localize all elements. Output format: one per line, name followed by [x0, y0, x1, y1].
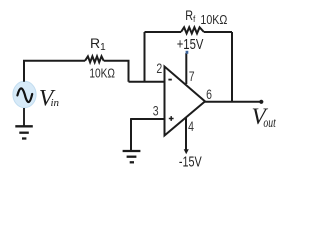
resistor R1 — [85, 56, 104, 62]
wire pin 2 input — [129, 81, 165, 83]
svg-text:6: 6 — [206, 86, 212, 102]
wire output — [205, 101, 262, 103]
output terminal dot — [259, 100, 263, 104]
wire feedback left vertical — [144, 32, 146, 82]
pin 4 supply line — [185, 117, 187, 152]
svg-text:10KΩ: 10KΩ — [89, 66, 115, 80]
svg-text:10KΩ: 10KΩ — [200, 12, 227, 27]
plus sign at non-inverting input — [169, 116, 174, 121]
wire input top from source to R1 — [24, 61, 85, 82]
wire feedback top left segment — [145, 31, 182, 33]
wire pin 3 input — [131, 118, 164, 120]
ground at pin 3 — [123, 151, 141, 162]
svg-text:-15V: -15V — [179, 153, 202, 170]
wire pin3 to ground vertical — [130, 118, 132, 150]
svg-text:out: out — [263, 115, 276, 130]
svg-text:R1: R1 — [90, 35, 106, 53]
svg-text:in: in — [51, 97, 60, 109]
svg-text:+15V: +15V — [177, 36, 204, 53]
wire from R1 to pin2 corner — [104, 61, 129, 82]
blue handle dot above pin 7 — [186, 51, 189, 54]
wire feedback top right segment — [204, 31, 232, 33]
wire feedback right vertical — [231, 32, 233, 102]
op-amp U1 — [165, 67, 206, 136]
svg-text:3: 3 — [153, 103, 159, 119]
minus sign at inverting input — [168, 79, 171, 81]
svg-text:7: 7 — [189, 68, 195, 84]
ground at source — [15, 108, 33, 139]
svg-text:2: 2 — [156, 60, 162, 76]
pin 7 supply line — [185, 53, 187, 84]
arrowhead on -15V line — [184, 149, 189, 154]
AC source Vin — [13, 81, 36, 107]
resistor Rf — [181, 27, 204, 33]
svg-text:Rf: Rf — [185, 8, 195, 25]
svg-text:4: 4 — [188, 118, 194, 134]
